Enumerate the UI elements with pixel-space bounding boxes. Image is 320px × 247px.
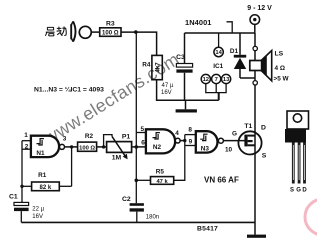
svg-text:5: 5 bbox=[141, 126, 145, 133]
wire N1 out to R2 bbox=[65, 146, 78, 148]
wire N3 out to T1 gate bbox=[223, 140, 244, 142]
svg-text:16V: 16V bbox=[32, 214, 43, 220]
wire R3 to R4 corner bbox=[121, 32, 157, 55]
svg-text:2: 2 bbox=[25, 143, 29, 150]
node junction N3 inputs bbox=[183, 139, 186, 142]
svg-text:S: S bbox=[262, 153, 267, 160]
capacitor C1 bbox=[14, 202, 29, 205]
svg-text:1M: 1M bbox=[112, 154, 122, 161]
IC1 pin 13 bbox=[222, 74, 231, 83]
svg-text:T1: T1 bbox=[244, 123, 252, 130]
svg-text:LS: LS bbox=[275, 51, 284, 58]
svg-text:1: 1 bbox=[24, 132, 28, 139]
svg-text:R4: R4 bbox=[142, 61, 151, 68]
node start-label 启动 bbox=[45, 27, 66, 37]
resistor R2 bbox=[78, 142, 97, 151]
wire button to R3 bbox=[91, 31, 99, 33]
svg-text:6: 6 bbox=[141, 140, 145, 147]
node junction N1 out bbox=[70, 145, 73, 148]
pin 8 stub bbox=[185, 134, 196, 136]
speaker LS bbox=[253, 46, 257, 50]
svg-text:D1: D1 bbox=[230, 48, 239, 55]
svg-text:>5 W: >5 W bbox=[274, 75, 290, 82]
svg-text:N2: N2 bbox=[153, 144, 162, 151]
resistor R5 bbox=[151, 177, 174, 185]
node junction R5 bbox=[135, 179, 139, 183]
resistor R1 bbox=[32, 182, 60, 191]
transistor package TO-220 tab bbox=[287, 111, 309, 129]
svg-text:9 - 12 V: 9 - 12 V bbox=[247, 5, 272, 12]
watermark www.elecfans.com bbox=[40, 49, 183, 149]
potentiometer P1 bbox=[107, 142, 132, 153]
wire mid ground rail bbox=[156, 99, 219, 101]
gate N1 output bubble bbox=[60, 144, 65, 149]
pin 2 stub bbox=[22, 148, 31, 150]
svg-text:N1: N1 bbox=[36, 150, 45, 157]
svg-text:1N4001: 1N4001 bbox=[185, 18, 212, 27]
transistor package body bbox=[285, 129, 306, 143]
svg-text:P1: P1 bbox=[122, 134, 131, 141]
svg-text:4 Ω: 4 Ω bbox=[275, 65, 285, 72]
svg-text:S: S bbox=[290, 188, 294, 194]
svg-text:47 µ: 47 µ bbox=[162, 83, 174, 89]
wire main right vertical supply to drain to ground bbox=[254, 33, 256, 235]
wire IC1 pins to ground rail bbox=[206, 84, 226, 93]
pin 9 stub bbox=[185, 145, 196, 147]
svg-text:B5417: B5417 bbox=[197, 226, 218, 233]
svg-text:IC1: IC1 bbox=[213, 63, 223, 70]
svg-text:R2: R2 bbox=[85, 133, 94, 140]
svg-text:VN 66 AF: VN 66 AF bbox=[204, 176, 239, 185]
pushbutton touch contact bbox=[71, 21, 76, 41]
pin 5 stub bbox=[136, 132, 146, 134]
resistor R3 bbox=[100, 28, 121, 37]
wire trigger vertical node bbox=[135, 32, 137, 203]
svg-text:82 k: 82 k bbox=[40, 185, 52, 191]
ground bottom symbol bbox=[247, 235, 266, 238]
IC1 pin 7 bbox=[212, 74, 221, 83]
svg-text:N3: N3 bbox=[201, 145, 210, 152]
gate N2 bbox=[146, 129, 175, 153]
pin 1 stub bbox=[22, 140, 31, 142]
svg-text:R3: R3 bbox=[106, 21, 115, 28]
svg-text:D: D bbox=[261, 125, 266, 132]
svg-text:16V: 16V bbox=[161, 90, 172, 96]
svg-text:47 k: 47 k bbox=[156, 179, 168, 185]
resistor R4 bbox=[152, 55, 162, 79]
IC1 pin 14 bbox=[218, 33, 220, 47]
ground mid symbol bbox=[185, 100, 187, 109]
diode D1 bbox=[239, 33, 241, 55]
transistor package legs bbox=[292, 143, 306, 184]
capacitor C3 bbox=[176, 64, 192, 68]
wire N2 out to N3 inputs bbox=[180, 140, 185, 142]
svg-text:4: 4 bbox=[175, 130, 179, 137]
svg-text:9: 9 bbox=[189, 138, 193, 145]
capacitor C2 bbox=[130, 203, 144, 206]
transistor T1 MOSFET bbox=[238, 131, 261, 154]
svg-text:180n: 180n bbox=[146, 214, 159, 220]
svg-text:3: 3 bbox=[63, 136, 67, 143]
wire bottom ground rail bbox=[21, 221, 255, 223]
gate N1 bbox=[31, 136, 59, 157]
wire R2 to P1 bbox=[97, 146, 107, 148]
svg-text:8: 8 bbox=[188, 126, 192, 133]
svg-text:14: 14 bbox=[215, 50, 222, 56]
watermark corner logo arc bbox=[305, 199, 320, 235]
gate N3 output bubble bbox=[218, 138, 223, 143]
svg-text:G: G bbox=[296, 188, 301, 194]
svg-text:10: 10 bbox=[225, 146, 233, 153]
node junction P1/N2 bbox=[135, 145, 139, 149]
svg-text:13: 13 bbox=[223, 77, 230, 83]
wire P1 to N2 pin6 bbox=[132, 146, 146, 148]
svg-text:7: 7 bbox=[215, 77, 218, 83]
svg-text:C2: C2 bbox=[122, 196, 131, 203]
gate N2 output bubble bbox=[175, 138, 180, 143]
node junction R1/C1 bbox=[20, 185, 23, 188]
IC1 pin 12 bbox=[201, 74, 210, 83]
svg-text:R5: R5 bbox=[156, 168, 165, 175]
svg-text:22 µ: 22 µ bbox=[32, 207, 44, 213]
svg-text:C1: C1 bbox=[9, 194, 18, 201]
svg-text:N1...N3 = ¼IC1 = 4093: N1...N3 = ¼IC1 = 4093 bbox=[34, 85, 104, 93]
svg-text:D: D bbox=[302, 188, 307, 194]
wire R5 right up to N3 inputs bbox=[174, 135, 185, 181]
node junction P1 wiper tie bbox=[102, 145, 105, 148]
wire feedback drop to R1 bbox=[71, 147, 73, 186]
svg-text:C3: C3 bbox=[176, 54, 185, 61]
wire N1 inputs tie vertical bbox=[21, 141, 23, 203]
node junction dot at R3 wire bbox=[134, 30, 138, 34]
svg-text:100 Ω: 100 Ω bbox=[102, 31, 119, 37]
wire R1 left bbox=[22, 185, 32, 187]
svg-text:4k7: 4k7 bbox=[154, 62, 161, 73]
svg-text:100 Ω: 100 Ω bbox=[79, 145, 95, 151]
svg-text:12: 12 bbox=[203, 77, 209, 83]
wire top supply rail bbox=[185, 32, 256, 34]
wire R4 bottom lead bbox=[156, 80, 158, 101]
svg-text:G: G bbox=[232, 130, 237, 137]
wire R5 left bbox=[136, 179, 150, 181]
svg-text:R1: R1 bbox=[38, 172, 47, 179]
gate N3 bbox=[196, 131, 218, 152]
pushbutton contact circle bbox=[79, 26, 91, 38]
wire C3 top lead bbox=[184, 33, 186, 64]
